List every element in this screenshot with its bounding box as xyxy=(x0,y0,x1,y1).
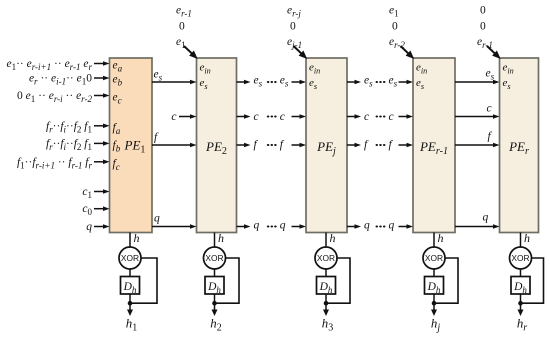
wire q PEr-1 to PEr xyxy=(455,212,500,229)
svg-text:c: c xyxy=(487,103,492,115)
top label row1 above PEj xyxy=(287,5,301,19)
top label row1 above PE2 xyxy=(176,5,192,19)
XOR gate 3 xyxy=(315,247,337,269)
svg-text:0: 0 xyxy=(392,21,398,33)
svg-text:c: c xyxy=(171,111,176,123)
wire q PE1 to PE2 xyxy=(152,213,197,229)
wire c into PE2 xyxy=(171,111,196,123)
register Dh j xyxy=(425,277,444,296)
PE1 port label e_b xyxy=(113,74,123,88)
output arrow h_1 xyxy=(127,303,133,316)
wire c PE2 to PEj (with dots) xyxy=(237,111,307,123)
diagonal e_in arrow into PE2 xyxy=(184,46,198,59)
output arrow h_j xyxy=(431,303,437,316)
XOR gate r xyxy=(510,247,532,269)
PE1 port label e_a xyxy=(113,60,123,74)
PE block PEr xyxy=(500,58,539,233)
output label h_3 xyxy=(322,317,333,334)
PE block PE1 xyxy=(110,58,153,233)
wire XOR to Dh 3 xyxy=(325,269,327,277)
input label c0 xyxy=(82,203,92,217)
output arrow h_3 xyxy=(323,303,329,316)
wire Dh to node 3 xyxy=(325,294,327,303)
svg-text:c: c xyxy=(280,111,285,123)
input label 0 e1..er-2 xyxy=(17,90,92,104)
PEj port label e_in xyxy=(309,62,320,76)
svg-text:q: q xyxy=(86,221,92,233)
wire f PEr-1 to PEr xyxy=(455,131,500,148)
PE block PEj xyxy=(306,58,347,233)
PE2 port label e_s xyxy=(200,77,208,91)
input label c1 xyxy=(82,186,92,200)
output arrow h_2 xyxy=(212,303,218,316)
PEr-1 port label e_s xyxy=(416,77,424,91)
input arrow q xyxy=(94,224,110,229)
svg-text:c: c xyxy=(389,111,394,123)
output label h_r xyxy=(517,317,527,334)
input arrow e1..er-1 er xyxy=(94,61,110,66)
input label f1..fr-1 fr xyxy=(17,157,93,171)
top label row3 above PEr xyxy=(477,36,493,50)
svg-text:0: 0 xyxy=(179,21,185,33)
PE1 port label f_a xyxy=(113,122,121,136)
PEr-1 port label e_in xyxy=(416,62,427,76)
svg-text:h: h xyxy=(330,231,336,245)
register Dh 3 xyxy=(317,277,336,296)
svg-text:q: q xyxy=(254,220,260,232)
top label row2 above PEr-1 xyxy=(392,21,398,33)
wire XOR to Dh j xyxy=(433,269,435,277)
wire Dh to node 2 xyxy=(214,294,216,303)
junction node 1 xyxy=(128,301,133,306)
wire es PEj to PEr-1 (with dots) xyxy=(347,75,413,89)
PEr port label e_in xyxy=(503,62,514,76)
svg-text:c: c xyxy=(364,111,369,123)
input arrow c0 xyxy=(94,206,110,211)
svg-text:XOR: XOR xyxy=(511,253,529,263)
XOR gate 2 xyxy=(204,247,226,269)
PE1 port label f_b xyxy=(113,140,121,154)
input arrow fr..f2 f1 (b) xyxy=(94,141,110,146)
wire f PE2 to PEj (with dots) xyxy=(237,139,307,151)
diagonal e_in arrow into PEr xyxy=(487,46,501,59)
output label h_2 xyxy=(210,317,221,334)
wire f PE1 to PE2 xyxy=(152,132,197,148)
junction node r xyxy=(518,301,523,306)
svg-text:XOR: XOR xyxy=(425,253,443,263)
svg-text:XOR: XOR xyxy=(121,253,139,263)
top label row2 above PEj xyxy=(290,21,296,33)
PE2 port label e_in xyxy=(200,62,211,76)
svg-text:0: 0 xyxy=(480,5,486,17)
XOR gate j xyxy=(423,247,445,269)
input label fr..f2 f1 (a) xyxy=(46,121,92,135)
register Dh 1 xyxy=(121,277,140,296)
output arrow h_r xyxy=(518,303,524,316)
input arrow 0 e1..er-2 xyxy=(94,93,110,98)
input label e1..er-1 er xyxy=(6,58,92,72)
feedback wire j xyxy=(434,258,458,303)
register Dh r xyxy=(511,277,530,296)
wire h from PEr xyxy=(521,231,531,247)
input label q xyxy=(86,221,92,233)
wire Dh to node r xyxy=(520,294,522,303)
diagonal e_in arrow into PEr-1 xyxy=(401,46,415,59)
svg-text:q: q xyxy=(280,220,286,232)
output label h_1 xyxy=(126,317,137,334)
wire e_s PEr-1 to PEr xyxy=(455,68,500,85)
svg-text:0: 0 xyxy=(290,21,296,33)
PE block PE2 xyxy=(197,58,237,233)
junction node j xyxy=(432,301,437,306)
wire XOR to Dh 1 xyxy=(129,269,131,277)
junction node 3 xyxy=(324,301,329,306)
svg-text:h: h xyxy=(438,231,444,245)
wire XOR to Dh r xyxy=(520,269,522,277)
svg-text:XOR: XOR xyxy=(317,253,335,263)
output label h_j xyxy=(431,317,440,334)
register Dh 2 xyxy=(205,277,224,296)
PEj port label e_s xyxy=(309,77,317,91)
input arrow er..e1 0 xyxy=(94,76,110,81)
top label row1 above PEr xyxy=(480,5,486,17)
feedback wire 3 xyxy=(326,258,350,303)
svg-text:q: q xyxy=(364,220,370,232)
input label fr..f2 f1 (b) xyxy=(46,138,92,152)
svg-text:0: 0 xyxy=(480,21,486,33)
top label row1 above PEr-1 xyxy=(389,5,399,19)
PE block PEr-1 xyxy=(413,58,455,233)
wire h from PE2 xyxy=(215,231,225,247)
input label er..e1 0 xyxy=(29,73,92,87)
svg-text:c: c xyxy=(254,111,259,123)
PEr port label e_s xyxy=(503,77,511,91)
wire q PEj to PEr-1 (with dots) xyxy=(347,220,413,232)
svg-text:q: q xyxy=(389,220,395,232)
feedback wire r xyxy=(521,258,544,303)
PE1 port label e_c xyxy=(113,92,122,106)
svg-text:h: h xyxy=(524,231,530,245)
svg-text:h: h xyxy=(218,231,224,245)
wire Dh to node 1 xyxy=(129,294,131,303)
wire XOR to Dh 2 xyxy=(214,269,216,277)
PE1 port label f_c xyxy=(113,158,120,172)
wire q PE2 to PEj (with dots) xyxy=(237,220,307,232)
wire es PE2 to PEj (with dots) xyxy=(237,75,307,89)
top label row2 above PEr xyxy=(480,21,486,33)
wire h from PE1 xyxy=(130,231,140,247)
wire h from PE3 xyxy=(326,231,336,247)
junction node 2 xyxy=(212,301,217,306)
svg-text:XOR: XOR xyxy=(205,253,223,263)
top label row2 above PE2 xyxy=(179,21,185,33)
wire Dh to node j xyxy=(433,294,435,303)
input arrow fr..f2 f1 (a) xyxy=(94,124,110,129)
svg-text:h: h xyxy=(134,231,140,245)
XOR gate 1 xyxy=(119,247,141,269)
wire e_s PE1 to PE2 xyxy=(152,69,197,85)
diagonal e_in arrow into PEj xyxy=(294,46,308,59)
feedback wire 1 xyxy=(130,258,157,303)
input arrow f1..fr-1 fr xyxy=(94,160,110,165)
feedback wire 2 xyxy=(215,258,240,303)
svg-text:q: q xyxy=(483,212,489,224)
wire c PEj to PEr-1 (with dots) xyxy=(347,111,413,123)
input arrow c1 xyxy=(94,189,110,194)
wire f PEj to PEr-1 (with dots) xyxy=(347,139,413,151)
wire c PEr-1 to PEr xyxy=(455,103,500,119)
top label row3 above PEj xyxy=(287,36,302,50)
top label row3 above PE2 xyxy=(176,36,186,50)
wire h from PEj xyxy=(434,231,444,247)
svg-text:q: q xyxy=(154,213,160,225)
top label row3 above PEr-1 xyxy=(389,36,405,50)
